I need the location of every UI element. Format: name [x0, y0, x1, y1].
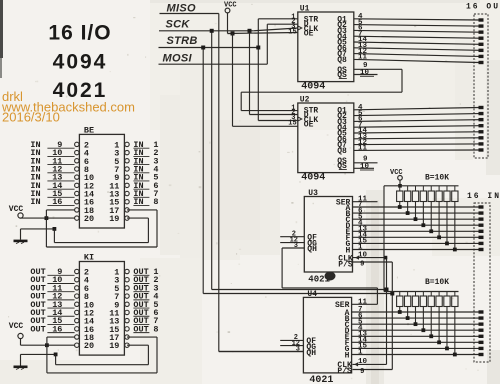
svg-text:20: 20 [84, 214, 94, 224]
svg-text:QH: QH [307, 245, 317, 254]
svg-text:4094: 4094 [53, 51, 108, 74]
svg-text:11: 11 [358, 298, 368, 306]
svg-text:OUT: OUT [30, 324, 45, 334]
svg-text:19: 19 [109, 341, 119, 351]
svg-text:U3: U3 [308, 189, 318, 198]
svg-text:U2: U2 [300, 96, 310, 105]
svg-text:15: 15 [288, 120, 296, 128]
svg-text:2016/3/10: 2016/3/10 [2, 110, 60, 125]
svg-text:3: 3 [294, 242, 298, 250]
svg-text:H: H [345, 351, 350, 360]
svg-text:16 OUT: 16 OUT [466, 3, 500, 12]
svg-text:11: 11 [358, 145, 368, 153]
svg-text:OE: OE [304, 121, 314, 130]
svg-text:SCK: SCK [166, 18, 191, 30]
svg-text:16 IN: 16 IN [467, 192, 500, 201]
svg-text:OE: OE [304, 30, 314, 39]
svg-text:4094: 4094 [301, 173, 325, 184]
svg-text:15: 15 [288, 29, 296, 37]
svg-text:3: 3 [296, 346, 300, 354]
svg-text:U1: U1 [300, 5, 310, 14]
svg-text:4021: 4021 [309, 375, 333, 384]
svg-text:B=10K: B=10K [425, 174, 449, 183]
svg-text:8: 8 [153, 197, 158, 207]
svg-text:MOSI: MOSI [163, 53, 193, 65]
svg-text:11: 11 [358, 54, 368, 62]
svg-text:VCC: VCC [9, 322, 24, 331]
svg-text:9: 9 [360, 261, 365, 269]
svg-text:19: 19 [109, 214, 119, 224]
svg-text:Q8: Q8 [337, 147, 347, 156]
svg-text:KI: KI [84, 253, 94, 263]
svg-text:B=10K: B=10K [425, 278, 449, 287]
svg-text:U4: U4 [307, 290, 317, 299]
svg-text:8: 8 [153, 324, 158, 334]
svg-text:MISO: MISO [167, 3, 196, 15]
svg-text:16 I/O: 16 I/O [48, 22, 111, 45]
svg-text:10: 10 [358, 251, 368, 259]
svg-text:9: 9 [360, 368, 365, 376]
svg-text:10: 10 [358, 358, 368, 366]
svg-text:IN: IN [30, 197, 40, 207]
svg-text:Q8: Q8 [337, 56, 347, 65]
svg-text:1: 1 [358, 349, 363, 357]
svg-text:4094: 4094 [301, 82, 325, 93]
svg-text:STRB: STRB [167, 35, 198, 47]
svg-text:BE: BE [84, 125, 94, 135]
svg-text:QH: QH [306, 349, 316, 358]
svg-text:20: 20 [84, 341, 94, 351]
